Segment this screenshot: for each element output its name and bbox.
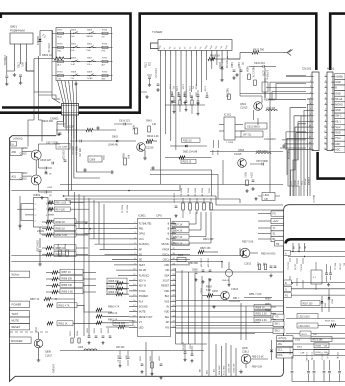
svg-text:FB: FB [265, 198, 268, 201]
main board border below connector (thick) [318, 152, 345, 179]
connector CN101 label [302, 67, 312, 71]
svg-text:R608 1K: R608 1K [210, 54, 220, 58]
svg-text:C612: C612 [230, 62, 233, 68]
svg-text:R644 2.2K: R644 2.2K [147, 135, 159, 138]
resistor R851 1K [47, 321, 100, 326]
transistor Q804 [202, 286, 240, 302]
svg-text:SDA: SDA [297, 180, 300, 185]
svg-text:L502 (C): L502 (C) [287, 262, 289, 270]
IC801 CPU box [138, 219, 171, 337]
svg-text:MENU: MENU [87, 36, 94, 38]
resistor R608 [208, 54, 222, 61]
bus under IC301 [210, 151, 283, 153]
capacitor C612 [230, 62, 236, 80]
svg-text:13: 13 [324, 142, 326, 144]
svg-text:X-M: X-M [71, 64, 75, 66]
svg-text:22NF: 22NF [102, 155, 104, 161]
svg-text:7: 7 [325, 109, 326, 111]
svg-text:B304: B304 [297, 347, 303, 349]
edge signal ABL [277, 342, 345, 347]
edge signal SB 1 [273, 321, 284, 326]
S801 pins [7, 44, 34, 71]
svg-text:C808 22P: C808 22P [62, 150, 64, 161]
svg-text:R836: R836 [76, 331, 78, 337]
key matrix ground [74, 82, 77, 86]
capacitor C573 560P [250, 160, 268, 165]
CRT rgb edge boxes [284, 280, 345, 298]
svg-text:R858 35K: R858 35K [62, 278, 73, 281]
svg-text:IC802: IC802 [33, 193, 41, 197]
edge signal B1 [258, 236, 284, 241]
svg-text:(L30): (L30) [295, 340, 300, 342]
CN801 wires below [64, 115, 77, 142]
svg-text:R822 1K: R822 1K [201, 188, 203, 197]
svg-text:C8-1 (L): C8-1 (L) [117, 355, 119, 363]
svg-text:FS: FS [273, 213, 277, 216]
svg-text:MLB: MLB [57, 36, 62, 38]
svg-text:C811 33P: C811 33P [200, 258, 202, 268]
svg-text:C1815: C1815 [234, 153, 242, 156]
capacitor C618 22P [40, 159, 53, 164]
svg-text:24C0L: 24C0L [37, 230, 45, 233]
capacitor cluster C583 R583 [171, 92, 200, 115]
svg-text:VDD: VDD [164, 311, 169, 314]
resistor R611 390 [240, 48, 283, 55]
resistor R854 10K [244, 293, 272, 298]
svg-text:KEY A: KEY A [139, 280, 146, 283]
mid resistor rows R860 R859 R861 [96, 306, 129, 325]
key matrix row 4: R753 S808 S809 R750 [52, 72, 113, 81]
svg-text:DH: DH [166, 321, 170, 324]
svg-text:AN VR: AN VR [139, 269, 147, 272]
CRT bottom cap row [289, 347, 345, 382]
resistor R823 10 [165, 156, 212, 164]
diode D802 1N4148 [90, 136, 136, 147]
svg-text:C826: C826 [93, 328, 95, 334]
svg-text:MUSIC: MUSIC [161, 243, 169, 246]
svg-text:SMD-B: SMD-B [222, 280, 230, 282]
svg-text:R573 56K: R573 56K [313, 339, 324, 341]
svg-text:C726: C726 [144, 62, 147, 68]
wire labels at block entry [291, 176, 316, 203]
svg-text:MB/KEY: MB/KEY [309, 176, 311, 185]
svg-text:4: 4 [325, 92, 326, 94]
capacitor C707 [154, 68, 160, 92]
crystal/resistor column above [174, 188, 212, 218]
svg-text:L501 100U: L501 100U [299, 326, 311, 328]
H101 pin stubs left [324, 75, 327, 150]
resistor R825 150 [198, 247, 218, 254]
resistor R859 70K [46, 282, 96, 287]
svg-text:R658: R658 [265, 310, 271, 312]
inductor L501 100U [297, 321, 345, 329]
resistor R865 1K [42, 245, 88, 250]
box C612 680U [245, 123, 267, 129]
svg-text:+12V(A): +12V(A) [313, 195, 316, 203]
connector CN801 [50, 98, 79, 121]
edge signal FS [258, 211, 284, 216]
resistor R826 1K [172, 212, 211, 246]
svg-text:D802: D802 [112, 136, 119, 139]
keyboard board border (top-left thick box) [1, 14, 131, 108]
connector CN101 body [312, 72, 319, 151]
svg-text:C836: C836 [139, 356, 141, 362]
svg-text:C612 680U: C612 680U [247, 126, 260, 129]
CN101 fanout wires [240, 77, 310, 197]
svg-text:SYNC: SYNC [139, 290, 146, 293]
svg-text:L50 30: L50 30 [294, 264, 296, 271]
bottom wire rot labels [200, 363, 236, 375]
svg-text:C56 3K: C56 3K [339, 263, 341, 270]
svg-text:R753: R753 [57, 72, 63, 74]
key matrix row 3: R761 S806 S807 R752 [52, 58, 113, 67]
svg-text:OK: OK [102, 36, 106, 38]
capacitor C804 [36, 238, 42, 266]
resistor R861 5.6K [42, 232, 88, 237]
svg-text:C835 33P: C835 33P [229, 363, 231, 373]
svg-text:BLK: BLK [207, 369, 209, 374]
LED D801 (LED801) [36, 31, 53, 59]
antenna arrow symbol [283, 50, 293, 56]
CRT top buses [284, 250, 345, 256]
CPU left wire bundle [75, 223, 130, 275]
svg-text:C4R: C4R [300, 352, 305, 354]
svg-text:CPU: CPU [156, 214, 162, 218]
edge signal SB 2 [273, 328, 284, 333]
transistor Q805 [239, 348, 268, 373]
transistor Q806 [10, 147, 41, 160]
label +5VA [13, 137, 23, 140]
svg-text:S803: S803 [87, 29, 93, 31]
svg-text:L804: L804 [264, 194, 270, 197]
svg-text:C718: C718 [195, 84, 197, 90]
CRT board border top edge (thick) [286, 239, 345, 243]
svg-text:R861 5.6K: R861 5.6K [56, 234, 68, 237]
svg-text:C614 223: C614 223 [119, 120, 130, 123]
svg-text:+12V: +12V [273, 220, 279, 223]
svg-text:2: 2 [310, 81, 311, 83]
transistor Q803 [240, 241, 276, 277]
CRT SCL row comps [300, 349, 329, 354]
resistor R863 1K [42, 225, 88, 230]
svg-text:12: 12 [324, 137, 326, 139]
svg-text:VDD: VDD [164, 264, 169, 267]
svg-text:C831: C831 [189, 344, 191, 350]
svg-text:FLT(MUTE): FLT(MUTE) [139, 222, 152, 225]
svg-text:10K: 10K [313, 334, 317, 336]
svg-text:L508 (L): L508 (L) [300, 264, 302, 272]
svg-text:Sync: Sync [335, 126, 341, 129]
crystal X802 [222, 262, 233, 286]
svg-text:FL23(SC): FL23(SC) [139, 243, 150, 246]
svg-text:S806: S806 [54, 98, 60, 101]
svg-text:C1815: C1815 [240, 107, 248, 110]
svg-text:C720: C720 [169, 84, 171, 90]
svg-text:R656: R656 [265, 299, 271, 301]
svg-text:RD5.6B: RD5.6B [225, 60, 227, 69]
IC IC802 box [34, 198, 49, 228]
IC802 label 24C04 [37, 230, 45, 233]
zener ZD601 [218, 59, 227, 82]
svg-text:MONO: MONO [335, 104, 343, 107]
svg-text:FS: FS [285, 296, 288, 298]
svg-text:C831: C831 [69, 331, 71, 337]
svg-text:C808: C808 [192, 270, 198, 272]
capacitor C796 [3, 55, 8, 86]
bottom bus and coil L803 [36, 327, 204, 367]
resistor R804 1K [172, 212, 201, 233]
svg-text:R754: R754 [102, 29, 108, 31]
CPU far-left verticals [75, 192, 105, 338]
svg-text:R807 1k: R807 1k [126, 205, 128, 214]
svg-text:C611: C611 [237, 62, 240, 68]
svg-text:Q005: Q005 [242, 348, 248, 350]
svg-text:R868: R868 [64, 244, 66, 250]
horizontal bus wires [11, 185, 283, 203]
vertical resistors mid-left [57, 244, 69, 256]
svg-text:(B): (B) [343, 263, 345, 266]
svg-text:X801: X801 [208, 188, 210, 194]
diode D801 [170, 145, 207, 154]
svg-text:OSCin: OSCin [162, 254, 170, 257]
svg-text:(F): (F) [172, 86, 174, 89]
resistor R805 100 [106, 278, 129, 285]
svg-text:R852 2.3K: R852 2.3K [256, 319, 268, 322]
svg-text:R557 100: R557 100 [303, 303, 314, 305]
svg-text:ADC: ADC [335, 148, 340, 151]
svg-text:R859 70K: R859 70K [62, 284, 73, 287]
capacitor cluster C712 C713 [165, 84, 208, 105]
IC802 bottom wire [40, 227, 90, 234]
svg-text:C173 (L): C173 (L) [289, 347, 291, 355]
svg-text:RESET: RESET [12, 325, 21, 329]
svg-text:MUTE: MUTE [139, 311, 146, 314]
svg-text:R851 2.3K: R851 2.3K [256, 313, 268, 316]
svg-text:D801 1N4148: D801 1N4148 [183, 152, 198, 154]
svg-text:R30B: R30B [316, 346, 322, 348]
resistor R612 [226, 88, 231, 100]
capacitor C611 [237, 62, 244, 71]
edge signal Y/G [273, 314, 284, 319]
box C806 22NF [88, 155, 104, 162]
svg-text:SW C: SW C [335, 115, 342, 118]
filter LC78 5.74MHz [262, 70, 269, 98]
svg-text:R610 2.7K: R610 2.7K [252, 66, 255, 78]
svg-text:TB: TB [276, 243, 280, 246]
capacitor C808 30P [192, 270, 198, 282]
svg-text:8: 8 [325, 114, 326, 116]
svg-text:C813: C813 [200, 288, 202, 294]
CN101 left staircase wires [268, 76, 306, 151]
IC801 left pin names [133, 222, 153, 329]
svg-text:SB 2: SB 2 [275, 330, 281, 333]
transistor Q602 [234, 149, 246, 167]
svg-text:R857 5.6K: R857 5.6K [242, 241, 254, 244]
IC801 left pins [129, 223, 138, 327]
svg-text:C172 (NF): C172 (NF) [305, 352, 307, 362]
svg-text:G: G [285, 289, 287, 291]
edge signal SCL [277, 347, 345, 352]
svg-text:C707 2.2: C707 2.2 [154, 68, 157, 78]
svg-text:NF-a&: NF-a& [335, 98, 342, 101]
edge signal +12V [258, 218, 284, 223]
long mid horizontals [11, 251, 242, 268]
IC IC802 label [33, 193, 41, 197]
svg-text:11: 11 [324, 131, 326, 133]
resistor R609 [246, 66, 251, 80]
capacitor C614 223 [114, 120, 132, 126]
svg-text:R825 150: R825 150 [200, 247, 211, 250]
grounds nest [83, 166, 155, 174]
svg-text:R857 1K: R857 1K [62, 271, 72, 274]
svg-text:R85-5 5.6K: R85-5 5.6K [252, 357, 264, 359]
svg-text:R616: R616 [216, 150, 218, 156]
edge label MUTE [10, 317, 30, 323]
CRT rot labels [292, 243, 307, 257]
IR sensor S801 label [10, 25, 25, 33]
svg-text:C829: C829 [100, 328, 102, 334]
svg-text:4: 4 [310, 92, 311, 94]
svg-text:GND: GND [335, 132, 341, 135]
main schematic block boundary [10, 136, 345, 382]
svg-text:C719: C719 [204, 86, 206, 92]
svg-text:VT: VT [139, 321, 143, 324]
capacitors C811 C812 [200, 258, 212, 283]
edge label TEST [10, 311, 30, 317]
resistor R869 1K [42, 251, 88, 256]
inductor L208 [256, 150, 271, 154]
svg-text:C174 4.7: C174 4.7 [321, 352, 323, 361]
capacitor cluster C720 C721 [169, 84, 194, 104]
svg-text:R820 (L): R820 (L) [180, 188, 182, 197]
CRT L50x rot labels [287, 258, 304, 288]
svg-text:MUTE: MUTE [12, 319, 20, 323]
svg-text:R861 1K: R861 1K [74, 146, 76, 155]
svg-text:KEY B: KEY B [139, 285, 147, 288]
svg-text:VCC: VCC [139, 238, 144, 241]
transistor Q807 [10, 172, 41, 185]
svg-text:223: 223 [148, 62, 151, 67]
svg-text:R302 1K: R302 1K [183, 140, 192, 142]
svg-text:SCL: SCL [278, 349, 283, 352]
svg-text:R807 1K: R807 1K [30, 298, 40, 301]
svg-text:5.74MHz: 5.74MHz [266, 70, 269, 80]
resistor R862 [122, 153, 129, 165]
edge signal Y1 [258, 225, 284, 230]
resistor R557 100 [286, 301, 345, 308]
svg-text:BLK: BLK [165, 295, 170, 298]
svg-text:C828: C828 [107, 328, 109, 334]
svg-text:S802: S802 [71, 29, 77, 31]
svg-text:6: 6 [325, 103, 326, 105]
svg-text:RESET: RESET [161, 285, 170, 288]
capacitor C762 [17, 62, 24, 85]
svg-text:TV-AV: TV-AV [87, 77, 94, 80]
capacitor C807 33P [173, 193, 178, 207]
vertical labels R860 R861 1K [71, 146, 80, 157]
CPU right rows to edge [176, 244, 283, 333]
svg-text:S807: S807 [87, 58, 93, 60]
svg-text:ALT: ALT [102, 64, 107, 67]
svg-text:R85L 7 10K: R85L 7 10K [249, 293, 262, 296]
ground mid right [235, 73, 285, 148]
svg-text:Q807: Q807 [22, 172, 29, 175]
resistor R824 39P [203, 238, 214, 241]
wire sensor outputs [26, 56, 56, 98]
svg-text:56K: 56K [262, 263, 264, 267]
svg-text:ZD601: ZD601 [218, 62, 220, 70]
diode cluster D503 D504 [321, 289, 333, 312]
svg-text:R81 7: R81 7 [233, 297, 240, 300]
rot labels R804 R807 [121, 205, 128, 214]
svg-text:R609: R609 [246, 66, 249, 72]
svg-text:R862 1K: R862 1K [56, 221, 66, 224]
svg-text:SEL: SEL [165, 316, 170, 319]
svg-text:RESET OUT: RESET OUT [139, 316, 153, 319]
svg-text:C574: C574 [250, 172, 252, 178]
svg-text:SOUND: SOUND [139, 306, 148, 309]
svg-text:R862: R862 [122, 153, 124, 159]
resistor R807 1K [172, 212, 196, 227]
resistor R807 1K label [30, 297, 75, 301]
svg-text:R863 1K: R863 1K [56, 227, 66, 230]
svg-text:AV: AV [166, 306, 169, 309]
ground top nest [96, 126, 100, 130]
IC801 right pin names [161, 222, 175, 329]
svg-text:KIL 1: KIL 1 [335, 120, 341, 123]
svg-text:9: 9 [325, 120, 326, 122]
svg-text:R641: R641 [132, 125, 134, 131]
inductor L610 [266, 107, 277, 111]
svg-text:R835: R835 [149, 356, 151, 362]
resistor R643 14K [146, 120, 157, 133]
edge signal +12V(A) [277, 336, 345, 341]
svg-text:(+5V(A)): (+5V(A)) [52, 364, 55, 373]
edge signal KDA [277, 353, 345, 358]
resistor R641 [132, 125, 138, 134]
resistor R644 2.2K [146, 135, 159, 143]
svg-text:FLA: FLA [139, 300, 144, 303]
svg-text:47K: 47K [127, 155, 129, 160]
svg-text:C56 (L): C56 (L) [326, 352, 328, 359]
resistor R858 35K [46, 276, 96, 281]
filter CF T11 5.74M [241, 131, 276, 141]
svg-text:C762: C762 [17, 62, 20, 68]
svg-text:GND: GND [335, 81, 341, 84]
svg-text:NC/a&: NC/a& [305, 178, 307, 185]
svg-text:LC78: LC78 [262, 70, 265, 76]
svg-text:3: 3 [310, 86, 311, 88]
main board border top-right (thick) [330, 14, 345, 70]
Q806 Q807 wires [36, 144, 60, 199]
svg-text:L TU80: L TU80 [226, 142, 234, 144]
resistor R812 100 [106, 320, 133, 328]
vertical label KEY [287, 150, 290, 160]
svg-text:S805: S805 [87, 43, 93, 45]
svg-text:KCL X86b: KCL X86b [224, 365, 226, 375]
svg-text:S809: S809 [87, 72, 93, 74]
svg-text:FP/SF: FP/SF [162, 248, 169, 251]
resistor R610 2.7K [252, 66, 257, 86]
connector H101 label [327, 67, 335, 71]
svg-text:R824 39P: R824 39P [203, 238, 214, 241]
key matrix row 2: R755 S804 S805 R756 [52, 43, 113, 52]
svg-text:R804 1K: R804 1K [173, 229, 183, 232]
svg-text:TUNER: TUNER [152, 30, 163, 34]
svg-text:PSI: PSI [165, 326, 169, 329]
svg-text:SB 1: SB 1 [275, 323, 281, 326]
svg-text:C1815: C1815 [20, 178, 28, 181]
